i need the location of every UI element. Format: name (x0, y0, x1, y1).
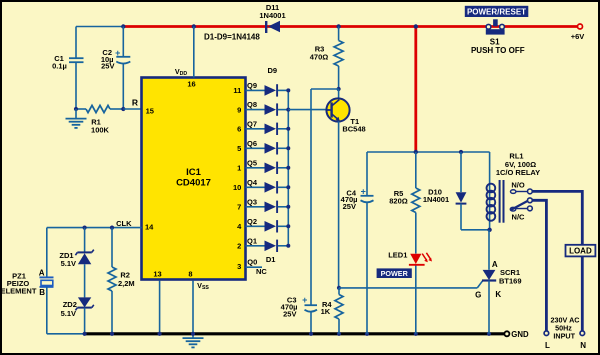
relay contact N/C (510, 206, 532, 221)
svg-text:ZD2: ZD2 (63, 300, 77, 309)
svg-text:2,2M: 2,2M (118, 279, 135, 288)
svg-text:Q2: Q2 (247, 217, 257, 226)
pin 6 output Q7 wire (237, 119, 264, 133)
svg-text:1N4001: 1N4001 (423, 195, 449, 204)
junction: C2 / R1 / reset node (121, 107, 125, 111)
svg-text:INPUT: INPUT (553, 332, 575, 341)
svg-text:3: 3 (237, 262, 241, 271)
pin 8 VSS wire to ground bus (188, 269, 209, 333)
svg-text:9: 9 (237, 105, 241, 114)
svg-text:CLK: CLK (116, 219, 132, 228)
junction: rail / VDD wire (192, 24, 196, 28)
svg-text:0.1µ: 0.1µ (52, 61, 67, 70)
svg-text:5: 5 (237, 144, 241, 153)
svg-text:25V: 25V (101, 62, 114, 71)
svg-text:LED1: LED1 (388, 251, 407, 260)
svg-text:6: 6 (237, 125, 241, 134)
pin 13 wire to ground bus (153, 269, 161, 333)
svg-text:B: B (39, 288, 45, 297)
pin 3 output Q0 stub (NC) (237, 257, 267, 276)
transistor Q1: T1 BC548 (NPN) (326, 89, 365, 134)
label: POWER/RESET banner (465, 6, 529, 17)
svg-text:Q5: Q5 (247, 158, 257, 167)
resistor R5 820 ohm (389, 152, 420, 254)
junction: ground bus node (414, 332, 418, 336)
svg-text:10: 10 (233, 183, 241, 192)
label: D1-D9=1N4148 note (204, 33, 260, 42)
diode D3 1N4148 (265, 201, 289, 213)
diode D1 1N4148 (265, 240, 289, 252)
svg-text:RL1: RL1 (509, 151, 523, 160)
wire: collector node over to C3 branch (311, 89, 339, 305)
ground symbol (reset network) (66, 109, 87, 128)
zener diode ZD2 5.1V (61, 297, 94, 333)
svg-text:R: R (132, 98, 138, 108)
svg-text:Q9: Q9 (247, 81, 257, 90)
diode D2 1N4148 (265, 220, 289, 232)
resistor R3 470 ohm (310, 27, 343, 90)
svg-text:N/O: N/O (511, 181, 525, 190)
svg-text:CD4017: CD4017 (176, 178, 211, 189)
junction: diode column node (286, 244, 290, 248)
diode D11 1N4001 on supply rail (259, 3, 285, 33)
junction: diode column node (286, 108, 290, 112)
wire: red vertical from rail down to relay node (414, 27, 417, 153)
svg-text:11: 11 (233, 86, 241, 95)
pin 11 output Q9 wire (233, 81, 264, 95)
svg-text:13: 13 (153, 269, 161, 278)
terminal: mains N (580, 331, 586, 350)
svg-text:1N4001: 1N4001 (259, 11, 285, 20)
zener diode ZD1 5.1V (59, 228, 93, 298)
pin 1 output Q5 wire (237, 158, 264, 172)
resistor R4 1K (321, 288, 343, 334)
svg-text:POWER: POWER (381, 269, 409, 278)
svg-text:100K: 100K (91, 126, 110, 135)
diode D7 1N4148 (265, 123, 289, 135)
pin 14 label (145, 223, 154, 232)
wire: T1 emitter down to gate node (338, 121, 340, 288)
junction: ground bus node (365, 332, 369, 336)
svg-text:+: + (361, 186, 366, 196)
svg-text:A: A (492, 260, 498, 269)
wire: diode column to T1 base (288, 109, 327, 111)
diode D9 1N4148 (265, 84, 289, 96)
svg-text:8: 8 (188, 269, 192, 278)
junction: diode column node (286, 127, 290, 131)
svg-text:D1-D9=1N4148: D1-D9=1N4148 (204, 33, 260, 42)
svg-text:Q6: Q6 (247, 139, 257, 148)
relay RL1 coil 6V 100 ohm (487, 151, 541, 230)
label: D9 designator (268, 66, 278, 75)
junction: emitter / R4 / SCR gate node (337, 286, 341, 290)
LED1 power indicator (red) (388, 251, 432, 334)
capacitor C4 470u 25V (electrolytic) (341, 152, 374, 334)
svg-text:PUSH TO OFF: PUSH TO OFF (471, 46, 525, 55)
label: 230V AC 50Hz INPUT (551, 316, 580, 341)
junction: ground bus node (487, 332, 491, 336)
diode D10 1N4001 (freewheel) (423, 152, 490, 230)
svg-text:N/C: N/C (512, 212, 526, 221)
wire: N/O contact to LOAD (thick) (532, 191, 582, 244)
svg-text:POWER/RESET: POWER/RESET (467, 7, 526, 16)
junction: diode column node (286, 88, 290, 92)
junction: diode column node (286, 146, 290, 150)
wire: piezo return to ground bus (47, 333, 85, 335)
pin 4 output Q2 wire (237, 217, 264, 231)
load box (566, 245, 596, 257)
diode D6 1N4148 (265, 142, 289, 154)
junction: diode column node (286, 224, 290, 228)
junction: rail / red vertical (414, 24, 418, 28)
svg-text:15: 15 (146, 106, 154, 115)
svg-text:+: + (302, 295, 307, 305)
wire: relay node horizontal (367, 151, 490, 153)
junction: diode column node (286, 185, 290, 189)
svg-text:G: G (475, 290, 481, 299)
junction: ground bus node (110, 332, 114, 336)
svg-text:D9: D9 (268, 66, 278, 75)
label: POWER banner (377, 268, 412, 278)
SCR1 BT169 thyristor (475, 230, 521, 334)
svg-text:470Ω: 470Ω (310, 53, 329, 62)
svg-text:NC: NC (256, 267, 267, 276)
junction: CLK / R2 (110, 226, 114, 230)
junction: CLK / ZD1 (83, 226, 87, 230)
svg-text:Q3: Q3 (247, 197, 257, 206)
piezo element PZ1 (1, 268, 54, 333)
junction: rail / C2 node (121, 24, 125, 28)
pin 15 label (146, 106, 154, 115)
label: D1 designator (266, 255, 276, 264)
svg-text:D1: D1 (266, 255, 276, 264)
capacitor C2 10u 25V (electrolytic) (101, 27, 130, 110)
svg-text:ELEMENT: ELEMENT (1, 286, 37, 295)
IC U1: IC1 CD4017 body (142, 78, 246, 280)
svg-text:1C/O RELAY: 1C/O RELAY (496, 168, 540, 177)
svg-text:N: N (580, 341, 586, 350)
junction: rail / R3 (336, 24, 340, 28)
svg-text:16: 16 (187, 79, 195, 88)
svg-text:LOAD: LOAD (569, 247, 592, 256)
svg-text:25V: 25V (283, 309, 296, 318)
junction: ground bus node (337, 332, 341, 336)
svg-text:Q8: Q8 (247, 100, 257, 109)
svg-text:Q0: Q0 (247, 257, 257, 266)
svg-text:+: + (115, 48, 120, 58)
junction: red rail / relay node (414, 150, 418, 154)
wire: pole to mains L (thick) (532, 200, 546, 330)
relay pole (armature) (511, 198, 533, 210)
svg-text:25V: 25V (343, 202, 356, 211)
capacitor C3 470u 25V (electrolytic) (281, 295, 317, 334)
svg-text:7: 7 (237, 203, 241, 212)
junction: R3 / T1 collector / C3 node (337, 87, 341, 91)
junction: ground bus node (158, 332, 162, 336)
svg-text:GND: GND (511, 330, 529, 339)
junction: C1 / R1 / ground node (74, 107, 78, 111)
svg-text:Q4: Q4 (247, 178, 258, 187)
svg-text:2: 2 (237, 242, 241, 251)
pin 10 output Q4 wire (233, 178, 265, 192)
diode D4 1N4148 (265, 181, 289, 193)
svg-text:BC548: BC548 (342, 125, 365, 134)
resistor R1 100K (76, 105, 123, 134)
diode D5 1N4148 (265, 162, 289, 174)
svg-text:IC1: IC1 (186, 167, 202, 178)
ground symbol (IC VSS) (183, 334, 204, 348)
svg-text:820Ω: 820Ω (389, 196, 408, 205)
capacitor C1 0.1u (52, 27, 83, 110)
junction: ground bus node (83, 332, 87, 336)
svg-text:A: A (39, 268, 45, 277)
junction: coil / D10 / SCR anode node (487, 228, 491, 232)
svg-text:L: L (545, 341, 550, 350)
svg-text:BT169: BT169 (499, 276, 522, 285)
svg-text:14: 14 (145, 223, 154, 232)
junction: diode column node (286, 205, 290, 209)
junction: ground bus node (309, 332, 313, 336)
wire: LOAD to mains N (thick) (581, 256, 584, 330)
wire: CLK line from piezo to IC pin 14 (47, 219, 142, 277)
wire: top-left supply segment from C1 to C2 node (76, 26, 123, 28)
svg-text:Q1: Q1 (247, 236, 257, 245)
pin 9 output Q8 wire (237, 100, 264, 114)
svg-text:1K: 1K (321, 307, 331, 316)
wire: diode-OR common cathode column (287, 90, 289, 245)
wire: VDD pin 16 to supply rail (175, 27, 196, 89)
pin 7 output Q3 wire (237, 197, 264, 211)
terminal: mains L (544, 331, 550, 350)
pin 2 output Q1 wire (237, 236, 264, 250)
svg-text:5.1V: 5.1V (61, 259, 76, 268)
relay contact N/O (511, 181, 533, 194)
junction: ground bus node (191, 332, 195, 336)
pin 5 output Q6 wire (237, 139, 264, 153)
svg-text:K: K (495, 290, 501, 299)
svg-text:5.1V: 5.1V (61, 309, 76, 318)
wire: +6V red supply rail (horizontal) (123, 25, 580, 28)
resistor R2 2.2M (108, 228, 135, 334)
svg-text:1: 1 (237, 164, 241, 173)
junction: relay node / D10 (459, 150, 463, 154)
wire: ground bus (black) (85, 332, 505, 335)
wire: reset node to IC pin 15 (123, 98, 141, 109)
svg-text:+6V: +6V (571, 32, 585, 41)
junction: diode column node (286, 166, 290, 170)
wire: gate line to SCR1 (339, 281, 483, 288)
switch S1 PUSH TO OFF (power/reset) (471, 19, 525, 55)
terminal: +6V supply terminal (571, 24, 585, 41)
diode D8 1N4148 (265, 103, 289, 115)
terminal: GND (504, 330, 529, 339)
svg-text:Q7: Q7 (247, 119, 257, 128)
